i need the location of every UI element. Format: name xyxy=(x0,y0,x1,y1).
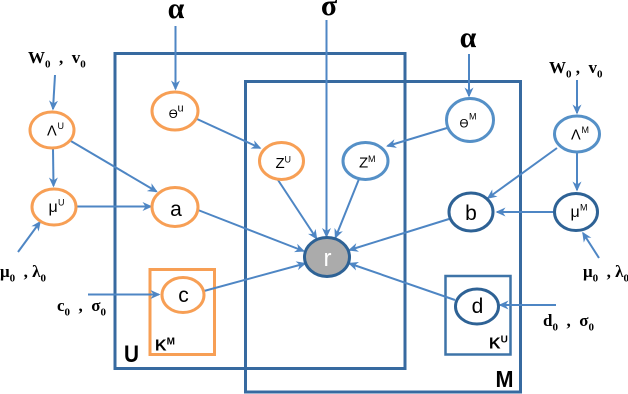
svg-text:M: M xyxy=(469,112,477,122)
svg-text:μ0 , λ0: μ0 , λ0 xyxy=(583,262,628,285)
wire Theta^U to Z^U xyxy=(197,119,260,148)
svg-text:α: α xyxy=(168,0,185,25)
svg-text:M: M xyxy=(582,125,590,135)
plate K^M xyxy=(150,270,215,355)
svg-text:u: u xyxy=(178,103,184,115)
plate K^U xyxy=(446,276,511,355)
node d xyxy=(456,289,499,324)
svg-text:U: U xyxy=(58,198,65,208)
svg-text:U: U xyxy=(285,155,292,165)
wire W0v0 to Lambda^U xyxy=(53,75,55,109)
svg-text:U: U xyxy=(58,121,65,131)
svg-text:Λ: Λ xyxy=(47,124,57,140)
svg-text:a: a xyxy=(170,198,182,221)
wire Lambda^M to b xyxy=(488,148,557,198)
wire mu^U to a xyxy=(77,206,151,208)
node Theta^U xyxy=(152,92,198,130)
node Z^M xyxy=(343,143,388,180)
node Theta^M xyxy=(447,99,494,142)
svg-text:U: U xyxy=(124,341,139,368)
node b xyxy=(449,193,493,231)
wire Theta^M to Z^M xyxy=(388,128,448,146)
node a xyxy=(152,188,198,227)
svg-text:ϴ: ϴ xyxy=(460,119,469,131)
svg-text:μ0 , λ0: μ0 , λ0 xyxy=(0,262,47,285)
node Z^U xyxy=(260,143,304,180)
node c xyxy=(162,278,204,313)
svg-text:d0 , σ0: d0 , σ0 xyxy=(543,311,594,334)
svg-text:c: c xyxy=(178,284,189,307)
wire alpha to Theta^U xyxy=(175,26,177,89)
svg-text:Λ: Λ xyxy=(571,128,581,144)
node Lambda^U xyxy=(30,112,74,148)
wire b to r xyxy=(350,219,450,250)
wire Z^U to r xyxy=(278,180,317,239)
node mu^M xyxy=(555,194,598,231)
svg-text:r: r xyxy=(324,245,332,272)
svg-text:Z: Z xyxy=(276,155,285,172)
svg-text:KU: KU xyxy=(489,335,508,353)
svg-text:M: M xyxy=(496,366,514,392)
wire c to r xyxy=(204,264,305,292)
wire mu^M to b xyxy=(497,211,553,213)
plate U xyxy=(115,54,405,369)
node mu^U xyxy=(32,189,76,225)
wire c0sigma0 to c xyxy=(88,294,159,296)
wire mu0lambda0 to mu^M xyxy=(583,233,599,258)
wire mu0lambda0 to mu^U xyxy=(18,222,40,252)
wire d to r xyxy=(350,264,456,301)
wire Lambda^U to a xyxy=(70,141,157,192)
svg-text:W0 , v0: W0 , v0 xyxy=(28,48,86,71)
svg-text:b: b xyxy=(465,202,477,225)
wire Z^M to r xyxy=(336,179,360,238)
wire Lambda^M to mu^M xyxy=(576,153,578,190)
wire alpha to Theta^M xyxy=(468,54,470,96)
wire W0v0 to Lambda^M xyxy=(576,80,578,113)
svg-text:d: d xyxy=(472,295,484,318)
svg-text:KM: KM xyxy=(155,337,175,355)
plate M xyxy=(246,82,521,393)
wire a to r xyxy=(198,210,304,251)
svg-text:M: M xyxy=(368,154,376,164)
svg-text:W0 , v0: W0 , v0 xyxy=(549,58,603,81)
svg-text:μ: μ xyxy=(49,199,58,216)
svg-text:M: M xyxy=(580,203,588,213)
node Lambda^M xyxy=(555,116,600,152)
node r xyxy=(305,238,350,277)
svg-text:μ: μ xyxy=(571,204,580,221)
svg-text:c0 , σ0: c0 , σ0 xyxy=(57,296,107,319)
wire Lambda^U to mu^U xyxy=(52,149,55,186)
svg-text:Z: Z xyxy=(359,155,368,172)
svg-text:ϴ: ϴ xyxy=(169,109,178,121)
wire sigma to r xyxy=(326,20,328,237)
svg-text:σ: σ xyxy=(321,0,338,22)
wire d0sigma0 to d xyxy=(500,304,556,306)
svg-text:α: α xyxy=(460,21,477,54)
